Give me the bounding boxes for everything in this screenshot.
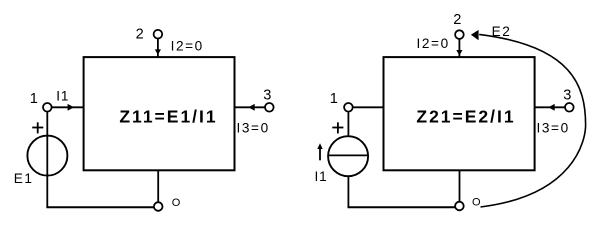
svg-text:1: 1 <box>30 91 38 107</box>
terminal 2 (top, right circuit) <box>455 30 464 39</box>
svg-text:1: 1 <box>330 91 338 107</box>
two-port box U1 <box>84 57 235 170</box>
voltage source E1 <box>27 136 67 176</box>
svg-text:O: O <box>172 197 181 209</box>
arrow I2 into box <box>456 50 462 56</box>
terminal 2 (top) <box>154 30 163 39</box>
svg-text:Z21=E2/I1: Z21=E2/I1 <box>416 107 515 127</box>
svg-text:2: 2 <box>453 12 461 28</box>
terminal 3 (right) <box>265 103 274 112</box>
plus sign of I1 <box>332 127 343 129</box>
terminal O (common) <box>154 202 163 211</box>
svg-text:I3=0: I3=0 <box>237 121 270 136</box>
wire terminal2 to box <box>157 39 159 58</box>
svg-text:I1: I1 <box>56 88 69 103</box>
terminal 1 (left, right circuit) <box>344 103 353 112</box>
arrow of E2 arc <box>471 30 479 40</box>
current direction arrow <box>319 148 321 161</box>
svg-text:I2=0: I2=0 <box>171 39 204 54</box>
terminal 3 (right, right circuit) <box>565 103 574 112</box>
wire source bottom down and right rail <box>347 176 349 208</box>
plus sign of E1 <box>32 127 43 129</box>
arrow I3 into box <box>548 104 554 111</box>
wire terminal1 to box <box>52 106 84 108</box>
arrow I1 into box <box>68 104 74 111</box>
svg-text:3: 3 <box>263 87 271 103</box>
bottom wire rail <box>46 206 153 208</box>
two-port box U2 <box>384 57 535 170</box>
svg-text:I1: I1 <box>315 169 328 184</box>
arrow I3 into box <box>248 104 254 111</box>
wire box bottom to terminal O <box>459 170 461 201</box>
svg-text:I3=0: I3=0 <box>537 121 570 136</box>
wire terminal2 to box <box>458 39 460 57</box>
svg-text:Z11=E1/I1: Z11=E1/I1 <box>119 107 217 127</box>
E2 measurement arc <box>479 34 585 207</box>
wire terminal1 down through source E1 <box>46 112 48 208</box>
terminal O (common, right circuit) <box>455 202 464 211</box>
terminal 1 (left) <box>43 103 52 112</box>
svg-text:E2: E2 <box>492 24 512 39</box>
bar of current source <box>328 154 368 156</box>
wire terminal1 to box <box>353 106 384 108</box>
wire terminal3 to box <box>235 106 266 108</box>
svg-text:O: O <box>472 196 481 208</box>
wire terminal1 down to source I1 <box>347 112 349 137</box>
wire box bottom to terminal O <box>157 170 159 202</box>
current source I1 <box>328 136 368 176</box>
svg-text:E1: E1 <box>14 171 34 186</box>
svg-text:2: 2 <box>136 27 144 43</box>
wire terminal3 to box <box>535 106 565 108</box>
svg-text:I2=0: I2=0 <box>417 36 450 51</box>
svg-text:3: 3 <box>563 87 571 103</box>
arrow I2 into box <box>155 49 161 54</box>
